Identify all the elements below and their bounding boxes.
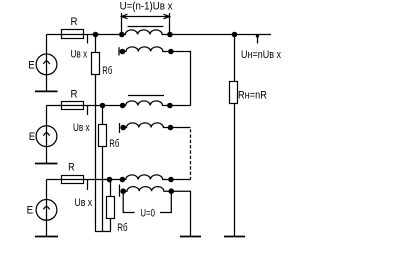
svg-text:R: R bbox=[71, 89, 78, 101]
svg-text:E: E bbox=[27, 204, 33, 216]
svg-text:Rб: Rб bbox=[117, 222, 127, 234]
svg-text:Rн=nR: Rн=nR bbox=[238, 89, 267, 101]
svg-text:Rб: Rб bbox=[102, 65, 112, 77]
svg-text:Rб: Rб bbox=[109, 138, 119, 150]
svg-text:U=0: U=0 bbox=[140, 208, 155, 220]
svg-text:E: E bbox=[28, 60, 35, 72]
svg-text:R: R bbox=[68, 162, 75, 174]
svg-text:Uв х: Uв х bbox=[73, 122, 90, 134]
svg-text:Uв х: Uв х bbox=[75, 197, 93, 209]
svg-text:R: R bbox=[71, 16, 78, 28]
svg-text:Uн=nUв х: Uн=nUв х bbox=[241, 49, 281, 61]
svg-text:U=(n-1)Uв х: U=(n-1)Uв х bbox=[120, 0, 173, 12]
svg-text:Uв х: Uв х bbox=[71, 49, 88, 61]
svg-text:E: E bbox=[29, 131, 36, 143]
